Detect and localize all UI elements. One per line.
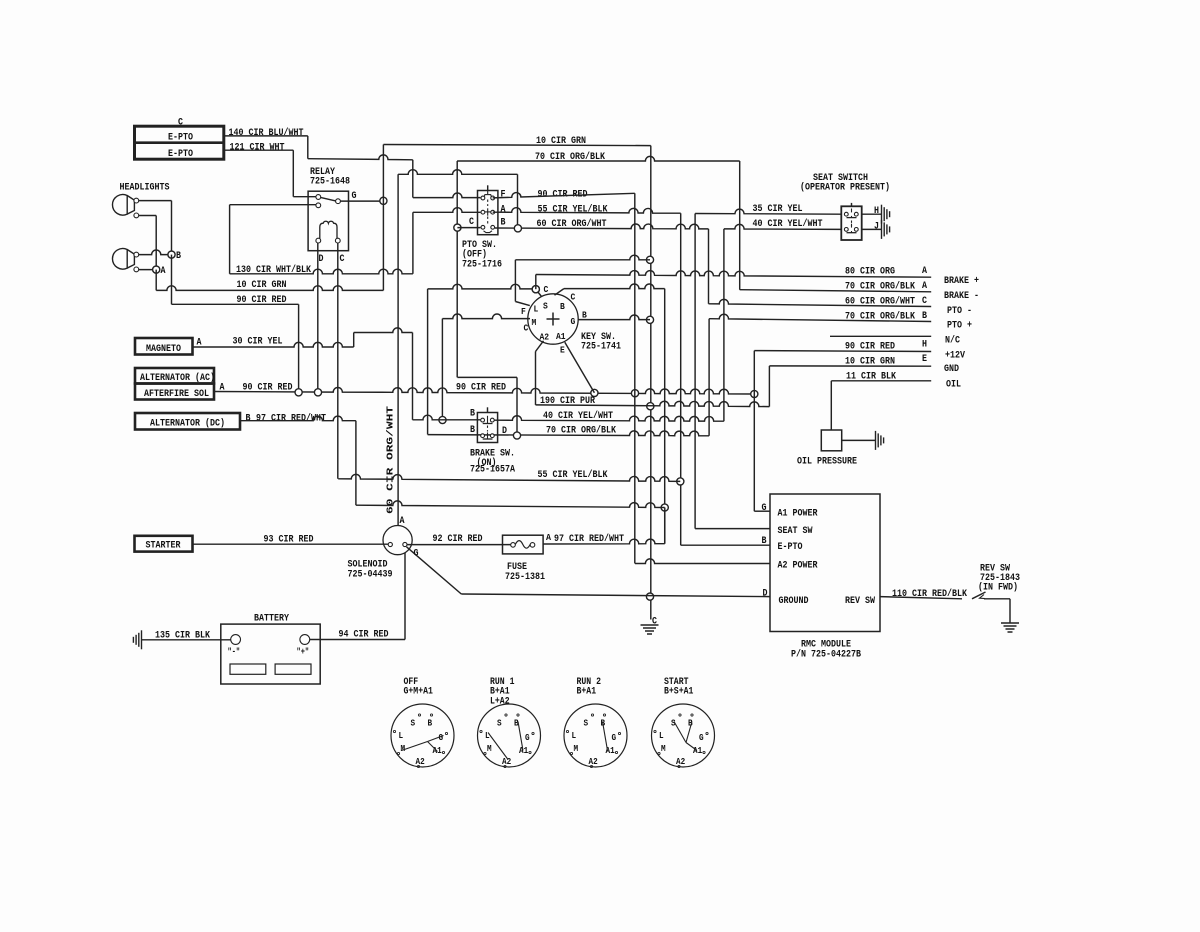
svg-text:G: G <box>525 732 530 743</box>
svg-text:70 CIR ORG/BLK: 70 CIR ORG/BLK <box>845 310 916 322</box>
svg-text:G: G <box>414 547 419 559</box>
svg-text:B: B <box>560 301 565 312</box>
svg-text:A: A <box>161 265 167 277</box>
svg-text:P/N 725-04227B: P/N 725-04227B <box>791 648 861 660</box>
svg-text:A1: A1 <box>519 745 529 756</box>
svg-text:OIL: OIL <box>946 379 961 391</box>
svg-text:L: L <box>659 730 664 741</box>
svg-text:A1: A1 <box>556 331 566 342</box>
svg-text:OIL PRESSURE: OIL PRESSURE <box>797 455 857 467</box>
svg-text:55 CIR YEL/BLK: 55 CIR YEL/BLK <box>538 204 609 216</box>
svg-text:N/C: N/C <box>945 335 960 347</box>
svg-text:GND: GND <box>944 363 959 375</box>
svg-text:S: S <box>497 718 502 729</box>
svg-text:C: C <box>571 292 576 303</box>
svg-text:E-PTO: E-PTO <box>778 541 803 553</box>
svg-text:(OPERATOR PRESENT): (OPERATOR PRESENT) <box>800 182 890 194</box>
svg-text:G: G <box>612 732 617 743</box>
svg-text:110 CIR RED/BLK: 110 CIR RED/BLK <box>892 588 968 600</box>
svg-text:97 CIR RED/WHT: 97 CIR RED/WHT <box>554 533 624 545</box>
svg-text:M: M <box>661 743 666 754</box>
svg-text:H: H <box>922 339 927 351</box>
svg-text:M: M <box>401 743 406 754</box>
svg-text:C: C <box>524 323 529 334</box>
svg-text:C: C <box>922 295 927 307</box>
svg-text:140 CIR BLU/WHT: 140 CIR BLU/WHT <box>229 127 304 139</box>
svg-text:121 CIR WHT: 121 CIR WHT <box>230 141 285 153</box>
svg-text:GROUND: GROUND <box>779 595 809 607</box>
svg-text:M: M <box>487 743 492 754</box>
svg-text:C: C <box>340 253 345 265</box>
svg-text:80 CIR ORG: 80 CIR ORG <box>845 265 895 277</box>
svg-text:A: A <box>922 265 928 277</box>
svg-text:MAGNETO: MAGNETO <box>146 343 181 355</box>
svg-text:AFTERFIRE SOL: AFTERFIRE SOL <box>144 388 209 400</box>
svg-text:G+M+A1: G+M+A1 <box>404 686 433 697</box>
svg-text:ALTERNATOR (AC): ALTERNATOR (AC) <box>140 372 215 384</box>
svg-text:B: B <box>176 250 181 262</box>
svg-text:PTO -: PTO - <box>947 305 972 317</box>
svg-text:L: L <box>534 304 539 315</box>
svg-text:STARTER: STARTER <box>146 540 182 552</box>
svg-text:ALTERNATOR (DC): ALTERNATOR (DC) <box>150 418 225 430</box>
svg-text:BRAKE -: BRAKE - <box>944 290 979 302</box>
svg-text:90 CIR RED: 90 CIR RED <box>456 382 506 394</box>
svg-text:G: G <box>699 732 704 743</box>
svg-text:60 CIR ORG/WHT: 60 CIR ORG/WHT <box>845 296 915 308</box>
svg-text:E-PTO: E-PTO <box>168 148 193 160</box>
svg-text:A: A <box>546 533 552 543</box>
svg-text:B: B <box>582 310 587 321</box>
svg-text:B: B <box>762 535 767 547</box>
svg-text:35 CIR YEL: 35 CIR YEL <box>753 203 803 215</box>
svg-text:D: D <box>319 253 324 265</box>
svg-text:A: A <box>922 280 928 292</box>
svg-text:+12V: +12V <box>945 350 966 362</box>
svg-text:E: E <box>922 353 927 365</box>
svg-text:G: G <box>571 316 576 327</box>
svg-text:L: L <box>399 730 404 741</box>
svg-text:"-": "-" <box>228 647 241 657</box>
svg-text:B: B <box>922 310 927 322</box>
svg-text:SEAT SW: SEAT SW <box>778 525 814 537</box>
svg-text:92 CIR RED: 92 CIR RED <box>433 533 483 545</box>
svg-text:M: M <box>532 317 537 328</box>
svg-text:L: L <box>572 730 577 741</box>
svg-text:10 CIR GRN: 10 CIR GRN <box>845 356 895 368</box>
svg-text:BATTERY: BATTERY <box>254 612 290 624</box>
svg-text:B: B <box>428 718 433 729</box>
svg-text:725-1381: 725-1381 <box>505 571 545 583</box>
svg-text:S: S <box>543 301 548 312</box>
svg-text:D: D <box>763 588 768 600</box>
svg-text:A2: A2 <box>416 756 425 767</box>
svg-text:725-1741: 725-1741 <box>581 341 621 353</box>
svg-text:(IN FWD): (IN FWD) <box>978 582 1018 594</box>
svg-text:A2 POWER: A2 POWER <box>778 559 819 571</box>
svg-text:A: A <box>501 203 507 215</box>
svg-text:E-PTO: E-PTO <box>168 131 193 143</box>
svg-text:725-1657A: 725-1657A <box>470 463 516 475</box>
svg-text:C: C <box>544 284 549 295</box>
svg-text:725-04439: 725-04439 <box>348 568 393 580</box>
svg-text:J: J <box>874 220 879 232</box>
svg-text:REV SW: REV SW <box>845 595 876 607</box>
svg-text:M: M <box>574 743 579 754</box>
svg-text:97 CIR RED/WHT: 97 CIR RED/WHT <box>256 412 326 424</box>
svg-text:55 CIR YEL/BLK: 55 CIR YEL/BLK <box>538 469 609 481</box>
svg-text:B+S+A1: B+S+A1 <box>664 686 693 697</box>
svg-text:S: S <box>584 718 589 729</box>
svg-text:10 CIR GRN: 10 CIR GRN <box>237 279 287 291</box>
svg-text:L: L <box>485 730 490 741</box>
svg-text:D: D <box>502 425 507 437</box>
svg-text:S: S <box>411 718 416 729</box>
svg-text:60 CIR ORG/WHT: 60 CIR ORG/WHT <box>385 405 396 514</box>
svg-text:G: G <box>762 502 767 514</box>
svg-text:PTO +: PTO + <box>947 320 972 332</box>
svg-text:A1 POWER: A1 POWER <box>778 507 819 519</box>
svg-text:A: A <box>400 515 406 527</box>
svg-text:30 CIR YEL: 30 CIR YEL <box>233 336 283 348</box>
svg-text:E: E <box>560 345 565 356</box>
svg-text:G: G <box>352 190 357 202</box>
svg-text:A1: A1 <box>433 745 443 756</box>
svg-text:A2: A2 <box>540 332 550 343</box>
svg-text:HEADLIGHTS: HEADLIGHTS <box>120 181 170 193</box>
svg-text:F: F <box>521 306 526 317</box>
svg-text:A2: A2 <box>676 756 685 767</box>
svg-text:A1: A1 <box>693 745 703 756</box>
svg-text:B: B <box>246 412 251 424</box>
svg-text:C: C <box>178 117 183 129</box>
svg-text:L+A2: L+A2 <box>490 695 510 706</box>
svg-text:725-1648: 725-1648 <box>310 176 350 188</box>
svg-text:F: F <box>501 188 506 200</box>
svg-text:725-1716: 725-1716 <box>462 258 502 270</box>
svg-text:B+A1: B+A1 <box>577 686 597 697</box>
svg-text:BRAKE +: BRAKE + <box>944 275 979 287</box>
svg-text:B: B <box>470 407 475 419</box>
svg-text:C: C <box>469 216 474 228</box>
svg-text:B: B <box>470 424 475 436</box>
svg-text:B: B <box>501 216 506 228</box>
svg-text:H: H <box>874 205 879 217</box>
svg-text:94 CIR RED: 94 CIR RED <box>339 628 389 640</box>
svg-text:A2: A2 <box>589 756 598 767</box>
svg-text:"+": "+" <box>297 647 310 657</box>
